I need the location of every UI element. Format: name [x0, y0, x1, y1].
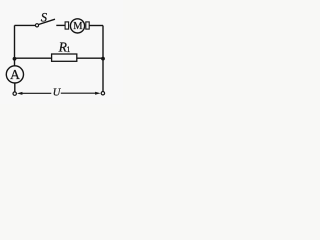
wire switch to motor [56, 24, 65, 26]
wire top-left horizontal [15, 24, 36, 26]
ammeter A circle [6, 66, 23, 83]
wire right vertical [102, 26, 104, 92]
svg-text:A: A [10, 67, 20, 82]
switch S pivot [35, 24, 38, 27]
terminal right [101, 92, 104, 95]
junction dot right [101, 57, 105, 61]
wire arrow-left shaft [22, 92, 52, 94]
wire arrow-right shaft [61, 92, 96, 94]
wire left vertical [14, 25, 16, 65]
resistor R1 box [52, 54, 77, 61]
terminal left [13, 92, 16, 95]
svg-text:U: U [53, 87, 62, 98]
motor M circle [70, 19, 84, 33]
arrow right (points at right terminal) [95, 92, 101, 95]
motor M left brush [65, 22, 69, 29]
wire ammeter to terminal [14, 83, 16, 92]
svg-text:M: M [73, 21, 83, 32]
switch S blade [39, 19, 55, 24]
wire motor to right corner [89, 25, 103, 27]
svg-text:S: S [41, 11, 48, 25]
motor M right brush [86, 22, 89, 29]
svg-text:1: 1 [66, 45, 70, 54]
junction dot left [13, 57, 17, 61]
arrow left (points at left terminal) [17, 92, 23, 95]
wire middle horizontal [15, 57, 104, 59]
